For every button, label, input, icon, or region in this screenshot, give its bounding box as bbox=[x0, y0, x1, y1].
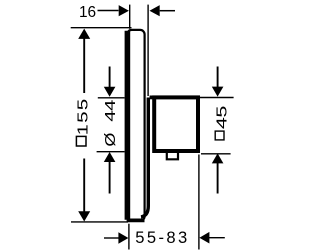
dim45 top arrow bbox=[212, 87, 224, 97]
dim16 right tail line bbox=[160, 10, 175, 12]
dim5583 right extension line bbox=[198, 155, 200, 250]
dim16 leader line bbox=[98, 10, 119, 12]
svg-text:1: 1 bbox=[74, 124, 91, 135]
svg-text:5: 5 bbox=[213, 106, 230, 118]
plate outline bbox=[127, 30, 144, 221]
dim5583 right tail line bbox=[209, 237, 225, 239]
dim45 top extension line bbox=[199, 97, 234, 99]
dim155 top arrow bbox=[78, 29, 90, 39]
dim5583 left tail line bbox=[104, 237, 119, 239]
dim16 left extension line bbox=[129, 5, 131, 29]
dim44 top extension line bbox=[98, 97, 125, 99]
svg-text:55-83: 55-83 bbox=[135, 228, 189, 247]
dim155 top extension line bbox=[71, 27, 132, 29]
dim45 bottom extension line bbox=[201, 153, 231, 155]
dim5583 left arrow bbox=[118, 232, 128, 244]
dim155 line lower segment bbox=[83, 159, 85, 213]
svg-text:16: 16 bbox=[79, 4, 96, 21]
dim155 bottom arrow bbox=[78, 211, 90, 221]
dim16 right extension line bbox=[147, 5, 149, 96]
dim5583 right arrow bbox=[199, 232, 209, 244]
dim5583 left extension line bbox=[128, 224, 130, 250]
dim44 bottom arrow bbox=[104, 152, 116, 162]
svg-text:Ø: Ø bbox=[102, 132, 119, 146]
svg-text:4: 4 bbox=[102, 100, 119, 111]
dim155 line upper segment bbox=[83, 39, 85, 94]
plate bottom edge thickening bbox=[127, 218, 145, 222]
svg-text:5: 5 bbox=[74, 111, 91, 123]
knob bbox=[154, 97, 198, 151]
dim44 bottom extension line bbox=[97, 151, 125, 153]
dim16 right arrow bbox=[150, 5, 160, 16]
plate front face thick bar bbox=[125, 31, 131, 220]
dim155 bottom extension line bbox=[71, 221, 128, 223]
svg-text:5: 5 bbox=[74, 99, 91, 111]
svg-text:4: 4 bbox=[213, 117, 230, 129]
dim16 left arrow bbox=[119, 5, 129, 16]
plate sleeve line bbox=[141, 98, 148, 217]
dim44 top arrow bbox=[104, 87, 116, 97]
dim44 line upper segment bbox=[109, 67, 111, 89]
dim45 line upper segment bbox=[217, 67, 219, 89]
dim45 bottom arrow bbox=[212, 153, 224, 163]
dim45 line lower segment bbox=[217, 163, 219, 194]
dim44 line lower segment bbox=[109, 162, 111, 194]
knob bottom tab bbox=[167, 153, 178, 159]
dim45 square symbol bbox=[215, 131, 224, 140]
dim155 square symbol bbox=[76, 136, 86, 146]
svg-text:4: 4 bbox=[102, 111, 119, 122]
knob top edge extension bbox=[150, 96, 156, 100]
